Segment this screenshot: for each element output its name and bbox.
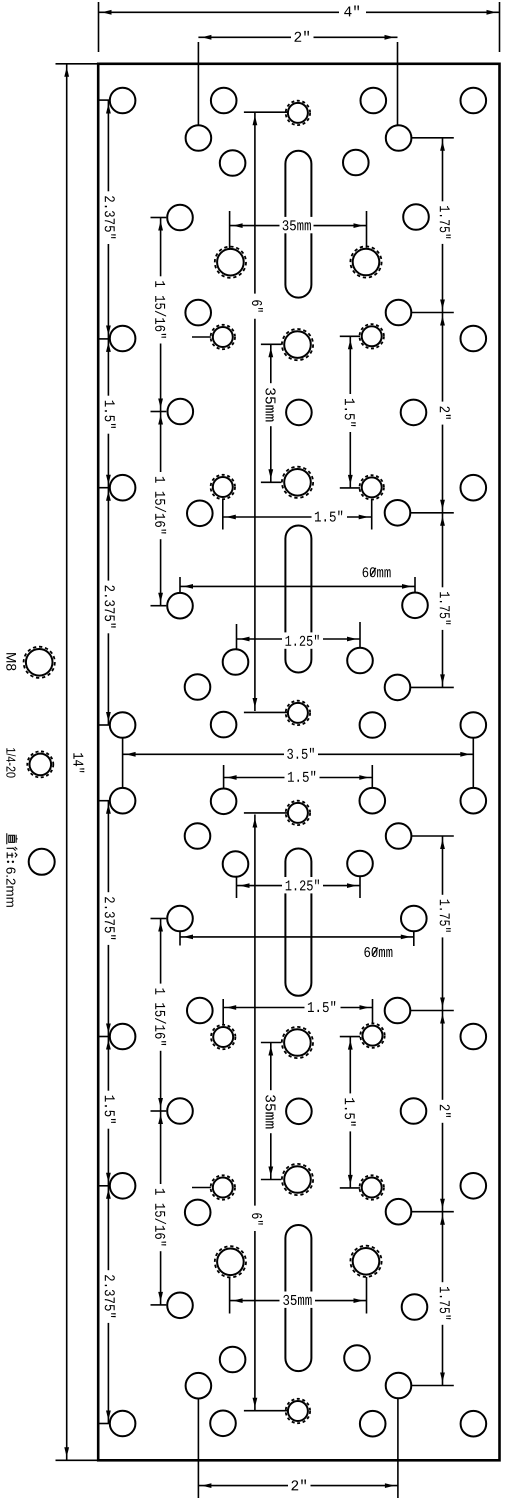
extension tick for 1-15/16 chain y=1111.0 xyxy=(151,1110,167,1112)
extension tick at left edge y=487.7 xyxy=(98,487,110,489)
dimension 35mm top - extension leaders xyxy=(229,211,231,248)
dimension 2.375in #2 label xyxy=(103,581,117,634)
tapped hole 1/4-20 S10 at (222.8,1187.5) xyxy=(213,1178,233,1198)
hole 6.2mm P14 at (473.3,338.5) xyxy=(461,326,487,352)
tapped hole 1/4-20 S8 at (223.2,1037.0) xyxy=(213,1027,233,1047)
dimension 1.5in right-col upper - ticks xyxy=(340,335,360,337)
tapped hole 1/4-20 S3 at (371.7,336.3) xyxy=(362,326,382,346)
hole 6.2mm P11 at (198.2,312.6) xyxy=(185,300,211,326)
hole 6.2mm P42 at (199.8,1010.5) xyxy=(187,998,213,1024)
dimension 1.25in lower - line and arrows xyxy=(237,885,283,887)
hole 6.2mm P32 at (122.6,800.7) xyxy=(110,788,136,814)
steel plate outline 4in x 14in xyxy=(98,64,499,1461)
dimension 1.75in #1 - line and arrows xyxy=(442,138,444,313)
dimension 60mm lower - line and arrows xyxy=(180,936,414,938)
hole 6.2mm P8 at (355.8,162.5) xyxy=(343,150,369,176)
dimension 60mm upper - line and arrows xyxy=(180,585,415,587)
extension tick for 1-15/16 chain y=411.5 xyxy=(151,411,167,413)
dimension 2in top - line and arrows xyxy=(198,36,291,38)
hole 6.2mm P33 at (223.6,801.3) xyxy=(211,789,237,815)
dimension 1.75in #3 label xyxy=(438,895,452,938)
hole 6.2mm P43 at (397.5,1010.5) xyxy=(385,998,411,1024)
dimension 1 15/16in #3 - line and arrows xyxy=(160,919,162,1112)
hole 6.2mm P52 at (398.5,1211.7) xyxy=(386,1199,412,1225)
extension tick at left edge y=1185.8 xyxy=(98,1185,110,1187)
dimension 6in lower - line and arrows xyxy=(254,815,256,1206)
dimension 1.75in #2 - line and arrows xyxy=(442,513,444,688)
dimension 35mm vertical upper - leaders xyxy=(261,343,282,345)
tapped hole 1/4-20 S12 at (297.9,1411.0) xyxy=(288,1401,308,1421)
tapped hole M8 B3 at (297.5,344.6) xyxy=(284,331,311,358)
legend 6.2mm hole symbol xyxy=(29,849,55,875)
hole 6.2mm P31 at (473.3,725.0) xyxy=(461,712,487,738)
slot 4 (vertical obround, bottom) xyxy=(285,1225,311,1371)
leader tick for 1/4-20 hole (222.8,337) xyxy=(192,336,211,338)
hole 6.2mm P17 at (413.5,412.4) xyxy=(401,400,427,426)
extension tick at left edge y=100.1 xyxy=(98,99,110,101)
dimension 35mm vertical lower label xyxy=(264,1090,278,1133)
hole 6.2mm P18 at (122.6,487.7) xyxy=(110,475,136,501)
dimension 1.5in mid - leaders xyxy=(223,765,225,788)
extension tick at left edge y=725.0 xyxy=(98,724,110,726)
tapped hole M8 B1 at (230.4,262.2) xyxy=(217,249,244,276)
dimension 1 15/16in #4 - line and arrows xyxy=(160,1111,162,1305)
extension tick for 1-15/16 chain y=217.5 xyxy=(151,217,167,219)
dimension 4in overall width - line and arrows xyxy=(99,11,340,13)
dimension 1.5in right-col lower label xyxy=(343,1093,357,1131)
legend M8 symbol xyxy=(26,649,53,676)
dimension 2in top - extension leaders xyxy=(197,42,199,125)
leader tick for 1/4-20 hole (222.8,1187.5) xyxy=(192,1187,211,1189)
legend M8 label xyxy=(6,653,16,670)
slot 1 (vertical obround, top) xyxy=(285,151,311,298)
legend diameter 6.2mm label (Chinese + value) xyxy=(7,833,18,844)
dimension 2in right #2 label xyxy=(438,1100,452,1123)
tapped hole 1/4-20 S1 at (297.9,112.9) xyxy=(288,103,308,123)
dimension 1.25in upper label xyxy=(283,632,323,648)
legend 1/4-20 symbol xyxy=(30,754,52,776)
dimension 1.25in upper - leaders xyxy=(236,624,238,649)
hole 6.2mm P45 at (473.3,1036.5) xyxy=(461,1024,487,1050)
dimension 6in upper - line and arrows xyxy=(254,112,256,293)
hole 6.2mm P25 at (360.0,660.5) xyxy=(347,648,373,674)
dimension 6in lower label xyxy=(251,1208,265,1230)
dimension 1.75in #4 label xyxy=(438,1282,452,1325)
extension tick right column y=137.8 xyxy=(411,137,453,139)
hole 6.2mm P5 at (198.4,138.0) xyxy=(186,125,212,151)
hole 6.2mm P4 at (473.3,100.5) xyxy=(461,88,487,114)
dimension 60mm lower - leaders xyxy=(179,931,181,946)
slot 2 (vertical obround, upper-mid) xyxy=(285,526,311,673)
extension tick at left edge y=800.7 xyxy=(98,800,110,802)
dimension 35mm vertical upper - line and arrows xyxy=(270,344,272,482)
dimension 1.25in lower - leaders xyxy=(236,877,238,898)
hole 6.2mm P28 at (122.6,725.0) xyxy=(110,712,136,738)
tapped hole M8 B6 at (297.5,1179.5) xyxy=(284,1166,311,1193)
dimension 2in right #2 - line and arrows xyxy=(442,1011,444,1212)
dimension 1.25in upper - line and arrows xyxy=(237,638,283,640)
hole 6.2mm P40 at (180.0,918.5) xyxy=(167,906,193,932)
hole 6.2mm P24 at (235.5,662.0) xyxy=(223,649,249,675)
dimension 1.75in #3 - line and arrows xyxy=(442,836,444,1011)
hole 6.2mm P3 at (373.3,100.5) xyxy=(361,88,387,114)
hole 6.2mm P7 at (232.6,163.0) xyxy=(220,150,246,176)
hole 6.2mm P30 at (372.4,725.0) xyxy=(360,712,386,738)
hole 6.2mm P48 at (413.5,1111.0) xyxy=(401,1098,427,1124)
dimension 35mm top - line and arrows xyxy=(230,225,280,227)
hole 6.2mm P39 at (360.0,863.5) xyxy=(347,851,373,877)
extension tick for 1-15/16 chain y=918.5 xyxy=(151,918,167,920)
hole 6.2mm P1 at (122.6,100.5) xyxy=(110,88,136,114)
tapped hole 1/4-20 S4 at (222.8,487.0) xyxy=(213,477,233,497)
dimension 1.5in left #1 label xyxy=(103,396,117,434)
hole 6.2mm P27 at (397.5,687.4) xyxy=(385,675,411,701)
extension tick right column y=687.4 xyxy=(410,686,454,688)
dimension 2in bottom - extension leaders xyxy=(197,1399,199,1499)
extension tick at left edge y=338.9 xyxy=(98,338,110,340)
dimension 2in right #1 label xyxy=(438,402,452,425)
dimension 2.375in #1 - line and arrows xyxy=(107,101,109,339)
extension tick at left edge y=1423.5 xyxy=(98,1423,110,1425)
tapped hole 1/4-20 S6 at (297.9,712.9) xyxy=(288,703,308,723)
dimension 1.75in #2 label xyxy=(438,587,452,630)
dimension 1.5in left #1 - line and arrows xyxy=(107,339,109,488)
dimension 1.5in horizontal lower label xyxy=(305,999,339,1015)
dimension 2in top label xyxy=(292,28,314,44)
dimension 2.375in #4 label xyxy=(103,1270,117,1323)
slashed zero of 60mm lower xyxy=(372,948,377,956)
hole 6.2mm P15 at (180.3,411.5) xyxy=(168,399,194,425)
hole 6.2mm P10 at (416.0,217.0) xyxy=(403,204,429,230)
dimension 1.5in right-col upper - line and arrows xyxy=(349,336,351,488)
dimension 6in lower - bottom leader xyxy=(244,1410,288,1412)
dimension 2.375in #2 - line and arrows xyxy=(107,488,109,725)
hole 6.2mm P51 at (197.7,1212.4) xyxy=(185,1200,211,1226)
hole 6.2mm P22 at (180.0,605.7) xyxy=(167,593,193,619)
dimension 1.5in horizontal lower - leaders xyxy=(222,999,224,1025)
tapped hole 1/4-20 S7 at (297.9,812.9) xyxy=(288,803,308,823)
slashed zero of 60mm upper xyxy=(370,568,375,576)
hole 6.2mm P29 at (223.6,724.6) xyxy=(211,712,237,738)
extension tick right column y=312.5 xyxy=(411,312,454,314)
hole 6.2mm P55 at (232.6,1359.5) xyxy=(220,1347,246,1373)
dimension 4in label xyxy=(342,3,364,19)
tapped hole 1/4-20 S11 at (371.7,1187.5) xyxy=(362,1178,382,1198)
extension tick for 1-15/16 chain y=605.7 xyxy=(151,605,167,607)
dimension 1.75in #1 label xyxy=(438,201,452,244)
hole 6.2mm P16 at (298.9,412.4) xyxy=(286,400,312,426)
hole 6.2mm P54 at (414.5,1307.0) xyxy=(402,1294,428,1320)
dimension 6in upper label xyxy=(251,296,265,318)
hole 6.2mm P36 at (197.5,836.0) xyxy=(185,823,211,849)
hole 6.2mm P20 at (199.8,513.3) xyxy=(187,501,213,527)
dimension 1.5in mid label xyxy=(285,768,319,784)
dimension 1.25in lower label xyxy=(283,877,323,893)
dimension 1.5in left #2 label xyxy=(103,1091,117,1129)
hole 6.2mm P56 at (357.0,1358.0) xyxy=(344,1345,370,1371)
dimension 1.5in horizontal upper label xyxy=(312,508,346,524)
extension tick right column y=512.8 xyxy=(410,512,454,514)
tapped hole M8 B7 at (230.4,1261.8) xyxy=(217,1249,244,1276)
dimension 1.5in right-col upper label xyxy=(343,394,357,432)
dimension 1.75in #4 - line and arrows xyxy=(442,1212,444,1386)
hole 6.2mm P26 at (197.5,687.0) xyxy=(185,674,211,700)
dimension 1.5in horizontal upper - leaders xyxy=(222,499,224,530)
dimension 2in right #1 - line and arrows xyxy=(442,313,444,513)
dimension 60mm lower label xyxy=(364,947,392,957)
dimension 1.5in left #2 - line and arrows xyxy=(107,1037,109,1186)
dimension 35mm bottom - line and arrows xyxy=(230,1300,280,1302)
hole 6.2mm P49 at (122.6,1185.8) xyxy=(110,1173,136,1199)
hole 6.2mm P34 at (372.3,800.7) xyxy=(360,788,386,814)
hole 6.2mm P53 at (180.0,1305.3) xyxy=(167,1293,193,1319)
hole 6.2mm P44 at (122.6,1036.5) xyxy=(110,1024,136,1050)
hole 6.2mm P47 at (298.9,1111.3) xyxy=(286,1099,312,1125)
hole 6.2mm P2 at (223.7,100.5) xyxy=(211,88,237,114)
hole 6.2mm P38 at (235.5,864.0) xyxy=(223,851,249,877)
dimension 3.5in - line and arrows xyxy=(123,753,284,755)
hole 6.2mm P21 at (397.5,512.8) xyxy=(385,500,411,526)
hole 6.2mm P59 at (122.6,1423.5) xyxy=(110,1411,136,1437)
dimension 35mm top label xyxy=(280,217,314,233)
dimension 2.375in #3 - line and arrows xyxy=(107,801,109,1037)
hole 6.2mm P13 at (122.6,338.5) xyxy=(110,326,136,352)
hole 6.2mm P6 at (398.6,138.0) xyxy=(386,125,412,151)
dimension 1 15/16in #2 label xyxy=(154,472,168,539)
dimension 1 15/16in #4 label xyxy=(154,1184,168,1251)
extension tick at left edge y=1036.5 xyxy=(98,1036,110,1038)
dimension 14in overall height - extension ticks xyxy=(56,63,98,65)
tapped hole 1/4-20 S2 at (222.8,337.0) xyxy=(213,327,233,347)
hole 6.2mm P35 at (473.3,800.7) xyxy=(461,788,487,814)
dimension 4in overall width - extension lines xyxy=(98,2,100,52)
dimension 1.5in horizontal upper - line and arrows xyxy=(223,516,312,518)
dimension 3.5in label xyxy=(285,745,318,761)
dimension 35mm bottom label xyxy=(281,1292,315,1308)
dimension 6in upper - top leader xyxy=(244,111,288,113)
dimension 35mm vertical lower - leaders xyxy=(261,1042,281,1044)
dimension 14in label xyxy=(73,753,84,772)
dimension 2in bottom - line and arrows xyxy=(198,1485,288,1487)
dimension 1.5in right-col lower - line and arrows xyxy=(349,1037,351,1188)
hole 6.2mm P37 at (398.6,836.0) xyxy=(386,823,412,849)
dimension 14in overall height - line and arrows xyxy=(66,64,68,1461)
tapped hole M8 B4 at (297.5,482.3) xyxy=(284,469,311,496)
extension tick right column y=1211.7 xyxy=(411,1211,454,1213)
dimension 6in lower - top leader xyxy=(244,812,288,814)
tapped hole 1/4-20 S9 at (372.5,1035.6) xyxy=(363,1026,383,1046)
dimension 2in bottom label xyxy=(289,1477,311,1493)
hole 6.2mm P50 at (473.3,1185.8) xyxy=(461,1173,487,1199)
hole 6.2mm P23 at (415.0,605.3) xyxy=(402,593,428,619)
dimension 60mm upper - leaders xyxy=(179,577,181,593)
extension tick for 1-15/16 chain y=1304.9 xyxy=(151,1304,167,1306)
dimension 1.5in horizontal lower - line and arrows xyxy=(223,1007,304,1009)
legend 1/4-20 label xyxy=(6,748,16,777)
hole 6.2mm P41 at (413.8,918.5) xyxy=(401,906,427,932)
dimension 3.5in - leaders xyxy=(122,739,124,789)
extension tick right column y=836.0 xyxy=(411,835,453,837)
dimension 35mm bottom - extension leaders xyxy=(229,1277,231,1314)
dimension 1 15/16in #2 - line and arrows xyxy=(160,412,162,606)
dimension 1 15/16in #1 - line and arrows xyxy=(160,218,162,412)
hole 6.2mm P9 at (180.0,217.5) xyxy=(167,205,193,231)
tapped hole M8 B8 at (366.0,1261.3) xyxy=(353,1248,380,1275)
dimension 1.5in right-col lower - ticks xyxy=(340,1036,360,1038)
hole 6.2mm P12 at (398.5,312.5) xyxy=(386,300,412,326)
hole 6.2mm P60 at (223.0,1423.3) xyxy=(210,1411,236,1437)
dimension 1 15/16in #3 label xyxy=(154,984,168,1051)
hole 6.2mm P19 at (473.3,487.7) xyxy=(461,475,487,501)
hole 6.2mm P46 at (180.0,1111.0) xyxy=(167,1098,193,1124)
tapped hole M8 B2 at (366.0,262.0) xyxy=(353,249,380,276)
dimension 60mm upper label xyxy=(363,567,391,577)
extension tick right column y=1385.5 xyxy=(411,1385,454,1387)
tapped hole M8 B5 at (297.4,1042.5) xyxy=(284,1029,311,1056)
hole 6.2mm P61 at (372.7,1423.7) xyxy=(360,1411,386,1437)
extension tick right column y=1010.5 xyxy=(410,1010,454,1012)
slot 3 (vertical obround, lower-mid) xyxy=(285,849,311,996)
dimension 2.375in #3 label xyxy=(103,892,117,945)
dimension 6in upper - bottom leader xyxy=(244,711,288,713)
hole 6.2mm P58 at (398.5,1385.5) xyxy=(386,1373,412,1399)
dimension 2.375in #4 - line and arrows xyxy=(107,1186,109,1424)
dimension 1 15/16in #1 label xyxy=(154,276,168,343)
dimension 35mm vertical upper label xyxy=(264,383,278,426)
tapped hole 1/4-20 S5 at (371.7,487.4) xyxy=(362,477,382,497)
dimension 2.375in #1 label xyxy=(103,191,117,244)
dimension 35mm vertical lower - line and arrows xyxy=(270,1043,272,1180)
hole 6.2mm P57 at (198.4,1385.7) xyxy=(186,1373,212,1399)
dimension 1.5in mid - line and arrows xyxy=(224,777,285,779)
hole 6.2mm P62 at (473.4,1423.7) xyxy=(461,1411,487,1437)
